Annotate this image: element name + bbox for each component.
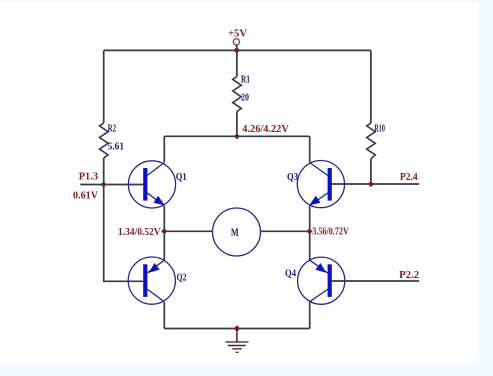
node: motor left junction	[161, 228, 167, 234]
svg-text:P2.2: P2.2	[399, 270, 419, 281]
wire: Q2 emitter up to motor rail	[163, 231, 165, 260]
svg-text:4.26/4.22V: 4.26/4.22V	[242, 124, 289, 135]
ground	[225, 329, 248, 353]
svg-text:R2: R2	[108, 124, 117, 135]
svg-text:Q2: Q2	[177, 272, 187, 283]
node voltage label 4.26/4.22V	[242, 124, 289, 135]
node: P1.3 junction	[101, 181, 107, 187]
svg-text:0.61V: 0.61V	[73, 190, 98, 201]
wire: left column from top rail down to R2	[103, 50, 105, 123]
svg-text:P1.3: P1.3	[79, 172, 98, 183]
wire: left column down to Q2 base corner	[104, 185, 144, 282]
resistor R10	[367, 123, 385, 159]
wire: R10 to P2.4 junction	[370, 159, 372, 184]
transistor Q4 (PNP mirrored)	[285, 257, 345, 304]
wire: Q4 collector down to bottom rail	[309, 302, 311, 329]
wire: bottom rail	[164, 328, 309, 330]
motor M	[213, 208, 261, 256]
node voltage label 1.34/0.52V	[118, 227, 161, 238]
resistor R1	[233, 75, 250, 112]
wire: +5V terminal to top rail	[236, 45, 238, 50]
wire: right column from top rail down to R10	[370, 50, 372, 123]
transistor Q1 (NPN)	[128, 161, 186, 208]
wire: Q3 collector up to inner rail	[309, 136, 311, 162]
wire: P2.4 stub right	[371, 172, 419, 184]
wire: top rail	[104, 49, 371, 51]
svg-text:20: 20	[241, 92, 249, 103]
svg-text:Q1: Q1	[176, 172, 187, 183]
wire: Q2 collector down to bottom rail	[163, 302, 165, 329]
pin stub P1.3	[73, 172, 104, 202]
svg-text:Q4: Q4	[285, 268, 296, 279]
svg-text:3.56/0.72V: 3.56/0.72V	[312, 227, 349, 238]
wire: motor rail left	[164, 230, 212, 232]
wire: Q3 base wire	[332, 183, 371, 185]
wire: R1 to inner top rail	[236, 112, 238, 137]
node: ground junction	[234, 325, 240, 331]
wire: rail junction down to R1	[236, 50, 238, 76]
svg-text:1.34/0.52V: 1.34/0.52V	[118, 227, 161, 238]
wire: Q4 emitter up to motor rail	[309, 231, 311, 260]
node: R1 bottom junction	[234, 133, 240, 139]
svg-text:5.61: 5.61	[108, 142, 125, 153]
wire: Q3 emitter down to motor rail	[309, 206, 311, 232]
power terminal +5V	[228, 28, 247, 45]
wire: R2 to P1.3 junction	[103, 158, 105, 185]
svg-text:R10: R10	[374, 124, 385, 135]
svg-text:+5V: +5V	[228, 28, 247, 39]
svg-text:P2.4: P2.4	[400, 172, 418, 183]
node: motor right junction	[306, 228, 312, 234]
node: P2.4 junction	[368, 181, 374, 187]
node voltage label 3.56/0.72V	[312, 227, 349, 238]
wire: inner top rail	[164, 135, 309, 137]
wire: Q4 base stub to P2.2	[332, 270, 419, 281]
wire: Q1 base wire	[104, 184, 144, 186]
resistor R2	[100, 123, 125, 158]
svg-text:Q3: Q3	[287, 172, 298, 183]
svg-text:M: M	[231, 227, 239, 239]
wire: Q1 collector up to inner rail	[163, 136, 165, 162]
transistor Q3 (NPN mirrored)	[287, 161, 345, 208]
node: +5V junction	[234, 47, 240, 54]
wire: Q1 emitter down to motor rail	[163, 206, 165, 232]
wire: motor rail right	[261, 230, 310, 232]
transistor Q2 (PNP)	[128, 257, 186, 304]
svg-text:R1: R1	[241, 75, 250, 86]
